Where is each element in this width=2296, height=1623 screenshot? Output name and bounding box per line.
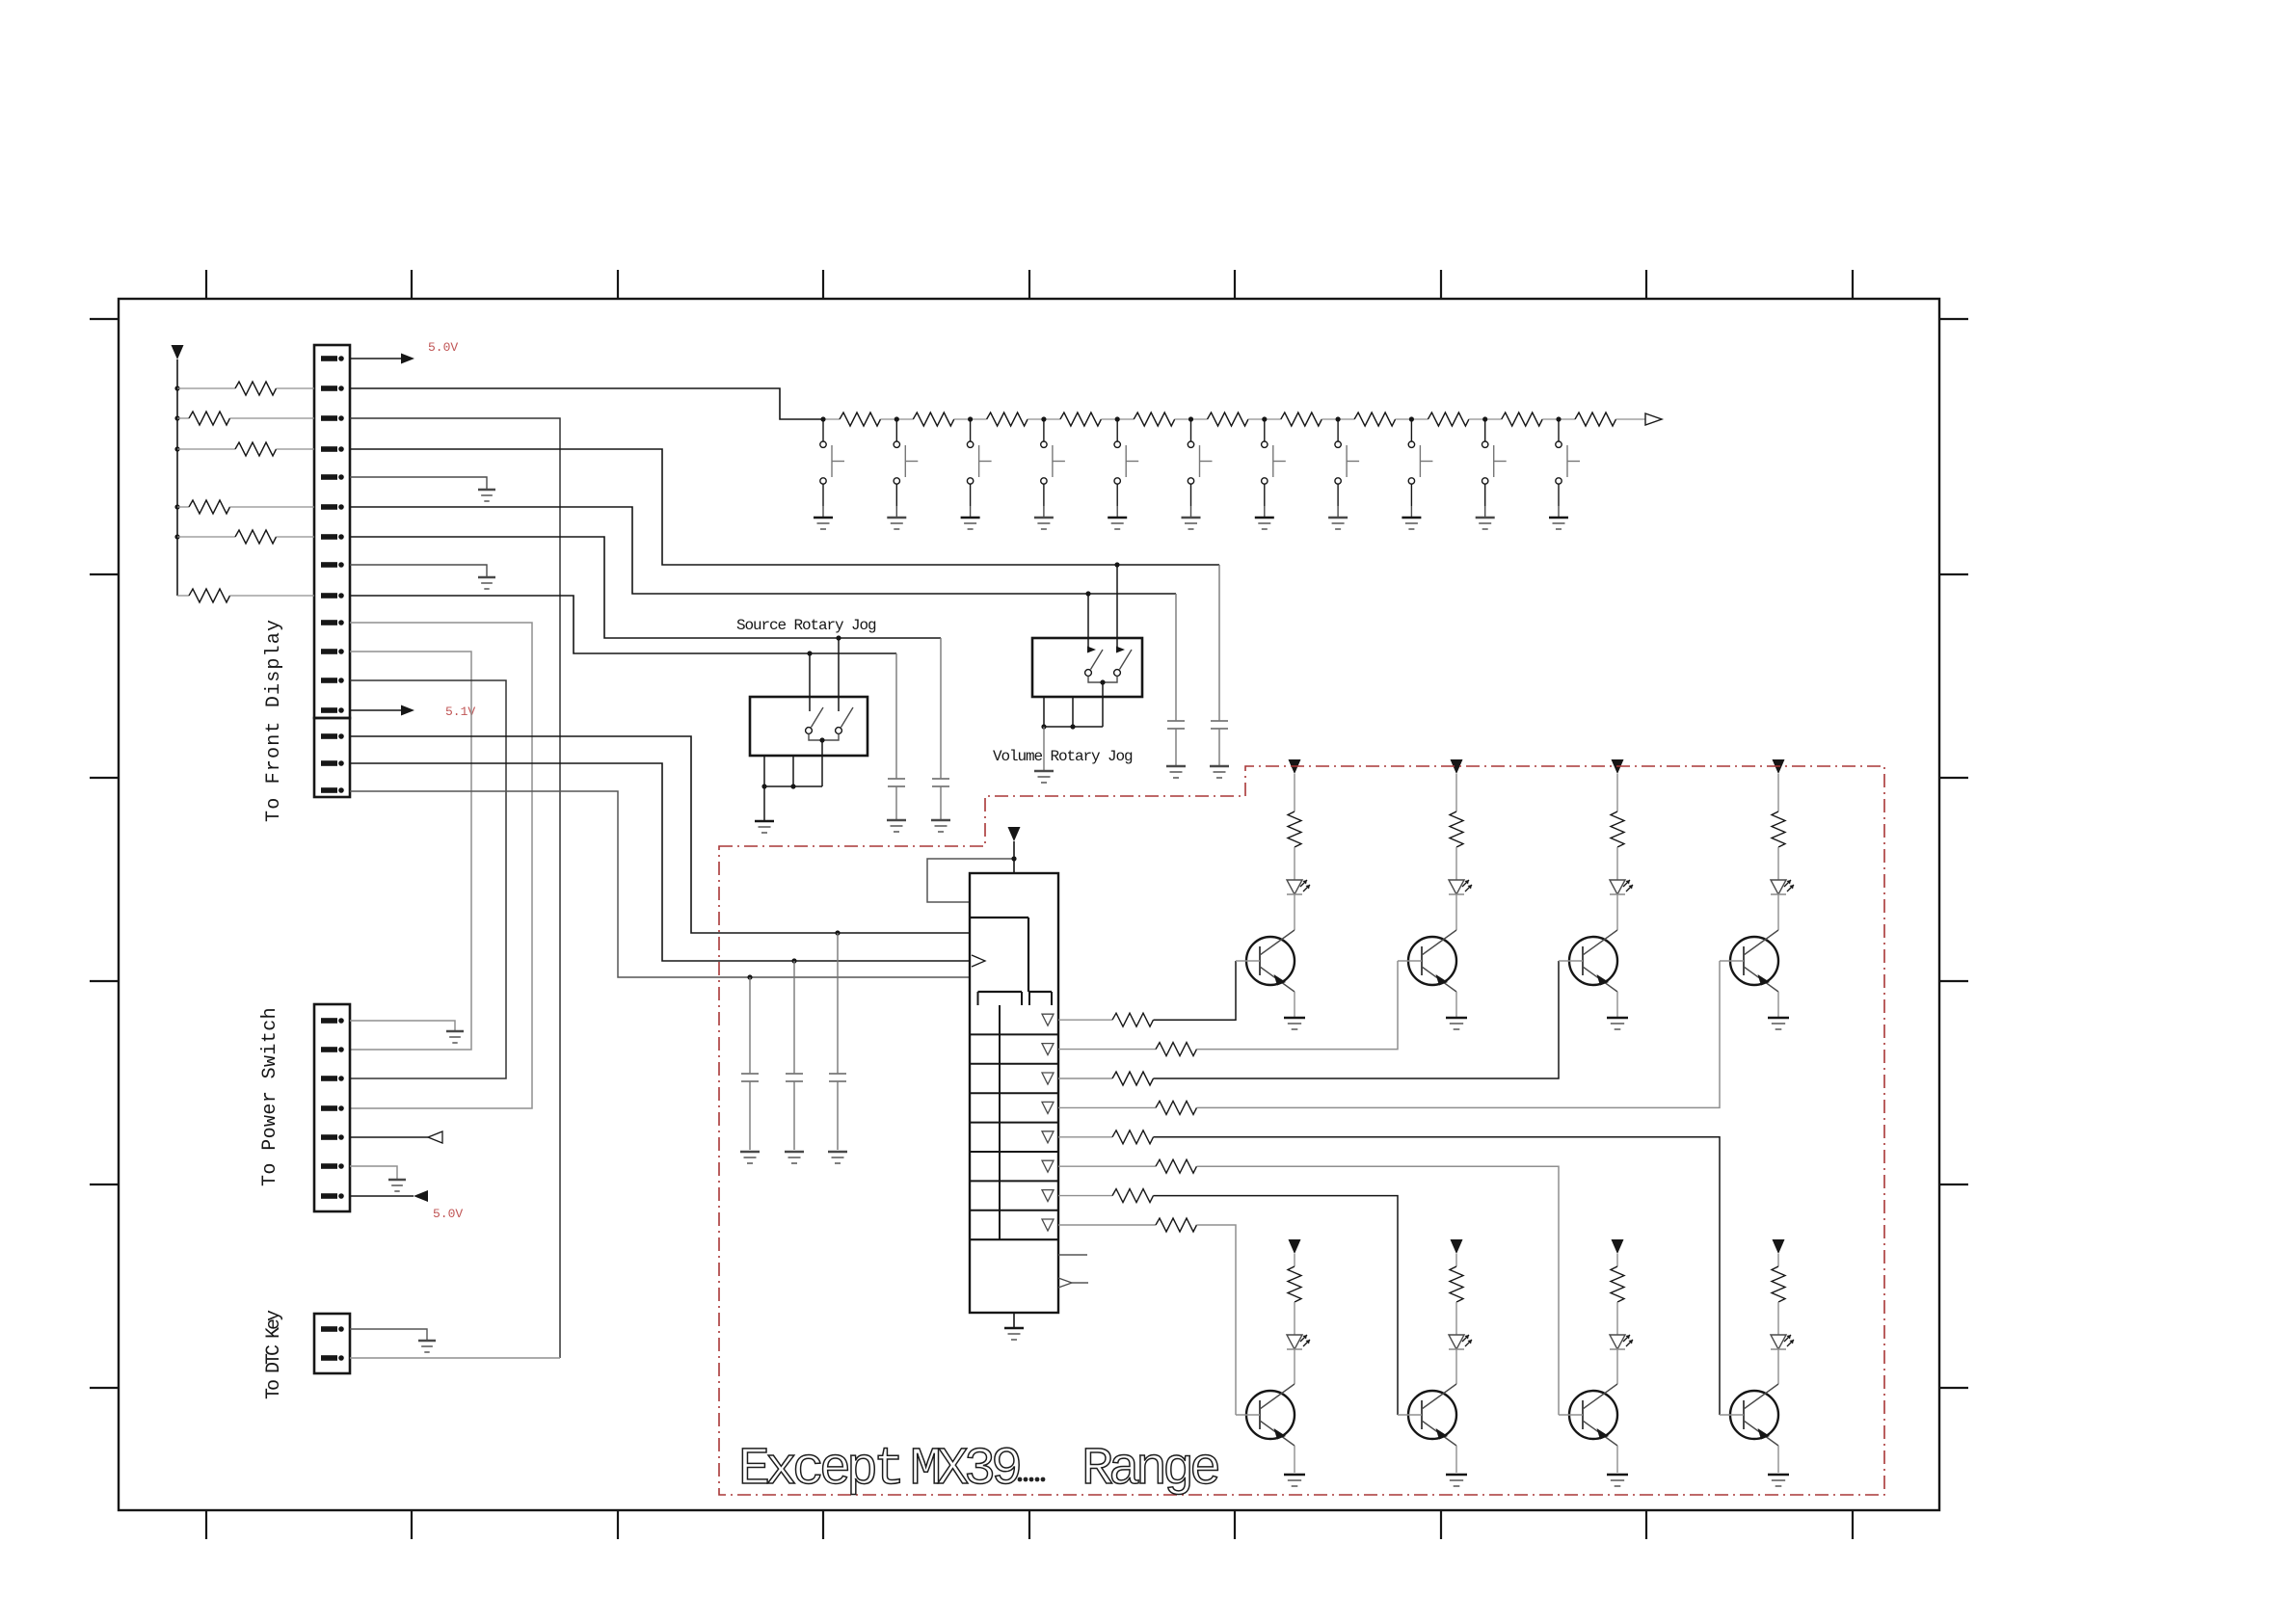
wire emitter Q7 to ground (1616, 1446, 1618, 1473)
svg-text:To DTC Key: To DTC Key (263, 1310, 285, 1399)
ground at IC U1 (1004, 1328, 1024, 1340)
label 5.0V net (428, 340, 458, 355)
wire LED chain Q5 (1294, 1254, 1295, 1266)
ground at switch SW2 (887, 506, 906, 529)
resistor R46 (1611, 1266, 1624, 1302)
volume jog common wire (1088, 677, 1117, 728)
resistor R36 row7 (1112, 1189, 1154, 1203)
wire pin9 to source jog line B (350, 596, 896, 653)
junction ladder node 3 (968, 416, 973, 421)
junction ladder node 11 (1556, 416, 1561, 421)
svg-text:Range: Range (1081, 1439, 1218, 1500)
open arrow CN2 pin5 (428, 1131, 442, 1143)
wire LED chain Q7 (1616, 1254, 1618, 1266)
push switch SW7 (1262, 419, 1286, 506)
ground at switch SW1 (814, 506, 833, 529)
wire pin13 to 5.1V arrow (350, 709, 401, 711)
left border tick marks (90, 319, 119, 1388)
wire LED chain Q4 (1777, 774, 1779, 811)
LED D7 (1610, 1335, 1633, 1349)
connector CN2 To Power Switch body (314, 1004, 350, 1211)
IC U1 driver cell dividers (970, 1005, 1058, 1239)
power arrow 5V supply to IC (1008, 827, 1021, 841)
wire LED to collector Q1 (1294, 894, 1295, 930)
push switch SW9 (1408, 419, 1432, 506)
wire LED chain Q3 (1616, 774, 1618, 811)
junction ladder node 9 (1409, 416, 1414, 421)
ground at C2 (931, 820, 950, 832)
resistor ladder R12 (971, 412, 1044, 426)
junction C5 on pin16 line (747, 974, 752, 979)
right border tick marks (1939, 319, 1968, 1388)
wire LED to collector Q6 (1455, 1349, 1457, 1384)
wire R41 to LED (1455, 847, 1457, 880)
resistor R41 (1450, 811, 1463, 847)
resistor R7 (177, 530, 314, 544)
IC U1 LED driver outer body (970, 873, 1058, 1313)
wire volume jog to ground (1043, 727, 1045, 771)
resistor ladder R18 (1411, 412, 1484, 426)
ground at volume jog (1034, 771, 1054, 783)
resistor R33 row4 (1156, 1101, 1197, 1114)
rotary encoder SW-VOLUME body (1032, 638, 1142, 697)
wire pin2 to key resistor ladder (350, 388, 823, 419)
transistor Q2 (1398, 930, 1456, 992)
connector CN1 pins 1-16 (321, 356, 344, 793)
wire CN3 pin2 (350, 1357, 560, 1359)
wire R47 to LED (1777, 1302, 1779, 1335)
LED D1 (1287, 880, 1310, 894)
wire emitter Q6 to ground (1455, 1446, 1457, 1473)
svg-text:Source Rotary Jog: Source Rotary Jog (736, 617, 876, 634)
ground at C1 (887, 820, 906, 832)
resistor ladder R11 (896, 412, 970, 426)
resistor ladder R17 (1338, 412, 1411, 426)
wire IC row8 lead (1058, 1224, 1156, 1226)
ground at switch SW10 (1476, 506, 1495, 529)
LED D5 (1287, 1335, 1310, 1349)
power arrow LED supply Q1 (1289, 759, 1301, 774)
arrow 5.0V output (401, 354, 414, 364)
wire row1 to transistor Q1 base (1154, 961, 1237, 1020)
wire pin10 to power switch pin4 (350, 623, 532, 1108)
junction source jog riser A (836, 635, 841, 640)
capacitor C2 on source line A (932, 638, 949, 820)
bottom border tick marks (206, 1510, 1853, 1539)
wire IC supply (1013, 841, 1015, 873)
rotary encoder SW-SOURCE body (750, 697, 868, 756)
connector CN2 pins 1-7 (321, 1018, 344, 1199)
resistor R6 (177, 500, 314, 514)
wire CN2 pin5 to input arrow (350, 1136, 428, 1138)
LED D4 (1771, 880, 1794, 894)
svg-text:Except: Except (738, 1439, 900, 1500)
wire IC row2 lead (1058, 1049, 1156, 1051)
ground at Q4 (1768, 1018, 1789, 1029)
ground at pin8 (478, 577, 495, 589)
push switch SW8 (1335, 419, 1359, 506)
source jog switch contacts (806, 707, 853, 733)
wire IC row7 lead (1058, 1195, 1112, 1197)
resistor R37 row8 (1156, 1218, 1197, 1232)
IC U1 clock input marker (972, 955, 985, 967)
ground at switch SW3 (961, 506, 980, 529)
junction on resistor bus y=466 (174, 446, 179, 451)
wire pin5 to ground (350, 477, 487, 490)
border frame (119, 299, 1939, 1510)
transistor Q5 (1236, 1384, 1295, 1446)
junction ladder node 1 (820, 416, 825, 421)
resistor ladder R20 (1559, 412, 1645, 426)
resistor R9 (177, 589, 314, 602)
arrow 5.1V output (401, 705, 414, 716)
wire emitter Q1 to ground (1294, 992, 1295, 1018)
wire LED chain Q1 (1294, 774, 1295, 811)
transistor Q6 (1398, 1384, 1456, 1446)
wire pin12 to power switch pin3 (350, 680, 506, 1078)
label To Power Switch (259, 1007, 281, 1186)
ground at C6 (785, 1152, 804, 1163)
IC U1 section divider with legs (978, 992, 1053, 1005)
wire pin16 to IC input (350, 791, 970, 977)
resistor R34 row5 (1112, 1131, 1154, 1144)
label Except MX39 Range (738, 1439, 1218, 1500)
wire emitter Q4 to ground (1777, 992, 1779, 1018)
IC U1 right pin stub (1058, 1254, 1087, 1256)
transistor Q1 (1236, 930, 1295, 992)
power arrow LED supply Q3 (1612, 759, 1624, 774)
junction source jog riser B (807, 651, 812, 655)
source jog pin stubs (764, 756, 793, 786)
ground at Q7 (1607, 1475, 1628, 1486)
junction ladder node 10 (1482, 416, 1487, 421)
resistor R42 (1611, 811, 1624, 847)
ground at Q3 (1607, 1018, 1628, 1029)
wire LED to collector Q4 (1777, 894, 1779, 930)
junction on resistor bus y=434 (174, 415, 179, 420)
ground at switch SW7 (1255, 506, 1274, 529)
wire emitter Q3 to ground (1616, 992, 1618, 1018)
svg-text:5.0V: 5.0V (433, 1207, 463, 1221)
svg-text:MX39: MX39 (910, 1439, 1020, 1500)
wire LED to collector Q7 (1616, 1349, 1618, 1384)
resistor R43 (1772, 811, 1785, 847)
power arrow LED supply Q7 (1612, 1239, 1624, 1254)
power arrow LED supply Q4 (1773, 759, 1785, 774)
resistor ladder R10 (823, 412, 896, 426)
resistor R32 row3 (1112, 1072, 1154, 1085)
open arrow ladder output (1645, 413, 1662, 425)
wire row6 to transistor Q7 base (1197, 1166, 1560, 1415)
capacitor C4 on volume line A (1211, 565, 1228, 766)
svg-text:Volume Rotary Jog: Volume Rotary Jog (993, 748, 1133, 765)
resistor R3 (177, 412, 314, 425)
resistor R45 (1450, 1266, 1463, 1302)
ground at pin5 (478, 490, 495, 501)
wire pin8 to ground (350, 565, 487, 577)
ground at switch SW6 (1182, 506, 1201, 529)
ground at switch SW4 (1034, 506, 1054, 529)
wire R45 to LED (1455, 1302, 1457, 1335)
junction ladder node 4 (1041, 416, 1046, 421)
label 5.0V at CN2 (433, 1207, 463, 1221)
svg-text:To Power Switch: To Power Switch (259, 1007, 281, 1186)
ground at Q6 (1446, 1475, 1467, 1486)
resistor R47 (1772, 1266, 1785, 1302)
wire pin7 to source jog line A (350, 537, 941, 638)
junction ladder node 2 (894, 416, 899, 421)
label Volume Rotary Jog (993, 748, 1133, 765)
wire CN2 pin7 to 5.0V arrow (350, 1195, 414, 1197)
wire IC supply loop (927, 859, 1014, 902)
power arrow LED supply Q6 (1451, 1239, 1463, 1254)
junction on resistor bus y=557 (174, 534, 179, 539)
power arrow 5V supply to resistor bus (172, 345, 184, 359)
wire row8 to transistor Q5 base (1197, 1225, 1237, 1415)
power arrow LED supply Q5 (1289, 1239, 1301, 1254)
IC U1 array bottom divider (970, 1238, 1058, 1240)
wire row4 to transistor Q4 base (1197, 961, 1721, 1107)
push switch SW11 (1556, 419, 1580, 506)
transistor Q3 (1559, 930, 1617, 992)
label 5.1V net (445, 705, 475, 719)
junction on resistor bus y=526 (174, 504, 179, 509)
wire emitter Q2 to ground (1455, 992, 1457, 1018)
wire row2 to transistor Q2 base (1197, 961, 1399, 1050)
wire R43 to LED (1777, 847, 1779, 880)
resistor ladder R15 (1191, 412, 1265, 426)
wire resistor bus vertical (176, 359, 178, 596)
junction C6 on pin15 line (791, 958, 796, 963)
wire pin14 to IC input (350, 736, 970, 933)
wire IC row3 lead (1058, 1078, 1112, 1079)
power arrow LED supply Q8 (1773, 1239, 1785, 1254)
transistor Q4 (1720, 930, 1778, 992)
ground at C3 (1166, 766, 1186, 778)
IC U1 right pin with marker (1058, 1278, 1088, 1288)
junction volume jog riser B (1085, 591, 1090, 596)
ground at C7 (828, 1152, 847, 1163)
wire IC row4 lead (1058, 1106, 1156, 1108)
wire volume jog riser B (1087, 594, 1089, 652)
connector CN3 pins 1-2 (321, 1326, 344, 1361)
ground at Q2 (1446, 1018, 1467, 1029)
push switch SW1 (820, 419, 844, 506)
power arrow LED supply Q2 (1451, 759, 1463, 774)
ground at Q1 (1284, 1018, 1305, 1029)
resistor ladder R14 (1117, 412, 1190, 426)
junction on resistor bus y=403 (174, 386, 179, 390)
junction C7 on pin14 line (835, 930, 840, 935)
wire R44 to LED (1294, 1302, 1295, 1335)
top border tick marks (206, 270, 1853, 299)
connector CN3 To DTC Key body (314, 1314, 350, 1373)
wire source jog riser B (809, 653, 811, 711)
capacitor C1 on source line B (888, 653, 905, 820)
wire pin6 to volume jog line B (350, 507, 1176, 594)
wire CN2 pin6 to ground (350, 1166, 397, 1180)
ground at switch SW5 (1108, 506, 1127, 529)
ground at source jog (755, 821, 774, 833)
ground at CN2 pin1 (446, 1031, 464, 1043)
wire IC row5 lead (1058, 1136, 1112, 1138)
transistor Q7 (1559, 1384, 1617, 1446)
ground at C4 (1210, 766, 1229, 778)
connector CN1 To Front Display body (314, 345, 350, 797)
junction ladder node 8 (1336, 416, 1341, 421)
ground at CN2 pin6 (388, 1180, 406, 1191)
wire source jog to ground (763, 786, 765, 821)
wire IC row6 lead (1058, 1165, 1156, 1167)
wire LED to collector Q8 (1777, 1349, 1779, 1384)
push switch SW6 (1188, 419, 1212, 506)
wire LED to collector Q5 (1294, 1349, 1295, 1384)
label To Front Display (263, 619, 285, 822)
wire CN3 pin1 to ground (350, 1329, 427, 1341)
resistor R2 (177, 382, 314, 395)
ground at CN3 pin1 (418, 1341, 436, 1352)
label Source Rotary Jog (736, 617, 876, 634)
volume jog switch contacts (1085, 647, 1132, 677)
ground at switch SW11 (1549, 506, 1568, 529)
ground at Q5 (1284, 1475, 1305, 1486)
LED D8 (1771, 1335, 1794, 1349)
junction ladder node 7 (1262, 416, 1267, 421)
resistor ladder R19 (1485, 412, 1559, 426)
option region boundary (dash-dot) (719, 766, 1884, 1495)
wire pin3 to DTC key pin2 (350, 418, 560, 1358)
source jog common wire (809, 734, 839, 787)
wire source jog riser A (838, 638, 840, 711)
resistor R40 (1288, 811, 1301, 847)
wire pin4 to volume jog line A (350, 449, 1219, 565)
LED D3 (1610, 880, 1633, 894)
push switch SW5 (1114, 419, 1138, 506)
resistor ladder R16 (1265, 412, 1338, 426)
wire emitter Q5 to ground (1294, 1446, 1295, 1473)
push switch SW3 (967, 419, 991, 506)
LED D6 (1449, 1335, 1472, 1349)
wire LED chain Q6 (1455, 1254, 1457, 1266)
wire LED to collector Q3 (1616, 894, 1618, 930)
volume jog pin stubs (1044, 697, 1073, 727)
volume jog pin join wire (1041, 724, 1103, 729)
resistor R35 row6 (1156, 1159, 1197, 1173)
resistor R31 row2 (1156, 1043, 1197, 1056)
ground at C5 (740, 1152, 760, 1163)
IC U1 internal block lines (970, 918, 1028, 992)
junction ladder node 6 (1188, 416, 1193, 421)
IC U1 output buffer triangles (1042, 1014, 1054, 1231)
capacitor C6 (786, 961, 803, 1150)
wire emitter Q8 to ground (1777, 1446, 1779, 1473)
wire IC row1 lead (1058, 1019, 1112, 1021)
push switch SW4 (1041, 419, 1065, 506)
ground at switch SW9 (1402, 506, 1421, 529)
wire pin15 to IC clock input (350, 763, 970, 961)
wire LED to collector Q2 (1455, 894, 1457, 930)
wire LED chain Q2 (1455, 774, 1457, 811)
svg-text:To Front Display: To Front Display (263, 619, 285, 822)
wire R46 to LED (1616, 1302, 1618, 1335)
ground at Q8 (1768, 1475, 1789, 1486)
wire row3 to transistor Q3 base (1154, 961, 1560, 1078)
wire row5 to transistor Q8 base (1154, 1137, 1721, 1415)
resistor ladder R13 (1044, 412, 1117, 426)
transistor Q8 (1720, 1384, 1778, 1446)
svg-text:5.0V: 5.0V (428, 340, 458, 355)
push switch SW2 (894, 419, 918, 506)
capacitor C3 on volume line B (1167, 594, 1185, 766)
resistor R30 row1 (1112, 1013, 1154, 1026)
resistor R4 (177, 442, 314, 456)
arrow 5.0V at CN2 pin7 (414, 1190, 428, 1202)
source jog pin join wire (761, 784, 822, 788)
capacitor C5 (741, 977, 759, 1150)
resistor R44 (1288, 1266, 1301, 1302)
wire R42 to LED (1616, 847, 1618, 880)
label To DTC Key (263, 1310, 285, 1399)
ground at switch SW8 (1328, 506, 1348, 529)
capacitor C7 (829, 933, 846, 1150)
wire pin1 to 5.0V arrow (350, 358, 401, 359)
junction ladder node 5 (1115, 416, 1120, 421)
wire IC ground stub (1013, 1313, 1015, 1328)
junction IC supply (1011, 856, 1016, 861)
junction volume jog riser A (1114, 562, 1119, 567)
wire volume jog riser A (1116, 565, 1118, 652)
wire R40 to LED (1294, 847, 1295, 880)
wire CN2 pin1 to ground (350, 1021, 455, 1031)
push switch SW10 (1482, 419, 1507, 506)
wire pin11 to power switch pin2 (350, 652, 471, 1050)
wire LED chain Q8 (1777, 1254, 1779, 1266)
wire row7 to transistor Q6 base (1154, 1196, 1399, 1415)
LED D2 (1449, 880, 1472, 894)
